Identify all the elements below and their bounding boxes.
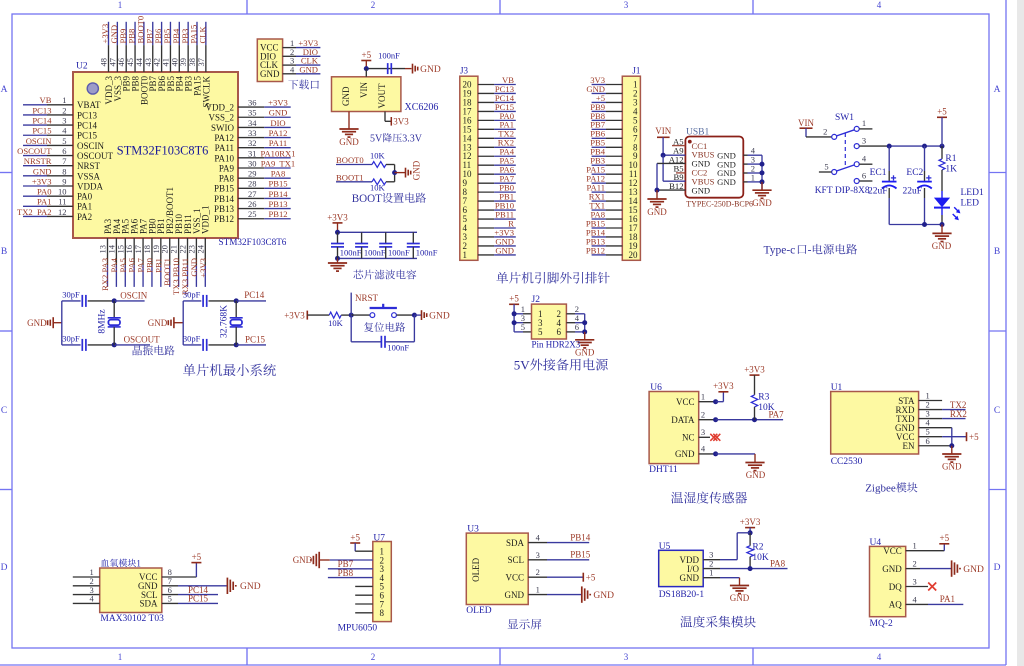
svg-text:PC15: PC15 (245, 335, 266, 345)
svg-text:33: 33 (248, 128, 257, 138)
svg-text:3: 3 (913, 577, 917, 587)
svg-text:VCC: VCC (505, 573, 524, 583)
svg-text:5: 5 (521, 322, 525, 332)
svg-text:GND: GND (420, 65, 441, 75)
svg-text:100nF: 100nF (416, 247, 438, 257)
svg-text:10K: 10K (370, 150, 386, 160)
J2 left rail (513, 304, 515, 332)
svg-text:SWIO: SWIO (211, 123, 234, 133)
U2 left pin 9 (VDDA) wire + net +3V3 (23, 185, 47, 187)
svg-text:AQ: AQ (889, 600, 902, 610)
capacitor EC1 22uF (888, 146, 890, 171)
svg-text:+3V3: +3V3 (32, 176, 52, 186)
svg-text:8: 8 (380, 608, 385, 618)
svg-text:5V: 5V (370, 134, 383, 145)
gnd (DS18B20) (739, 578, 741, 586)
U2 right pin 28 (PB15) wire + net PB15 (238, 187, 264, 189)
svg-text:1: 1 (118, 652, 123, 662)
svg-text:OSCOUT: OSCOUT (17, 146, 52, 156)
svg-text:PA9 TX1: PA9 TX1 (261, 158, 295, 168)
svg-text:EN: EN (903, 441, 915, 451)
svg-text:VDD_1: VDD_1 (201, 206, 211, 235)
svg-text:PA9: PA9 (219, 163, 235, 173)
svg-text:BOOT1: BOOT1 (336, 173, 364, 183)
switch pin6 wire (859, 180, 872, 182)
svg-text:1: 1 (913, 541, 917, 551)
svg-text:PA2: PA2 (77, 212, 92, 222)
U1 pin3 TXD wire to RX2 (919, 418, 943, 420)
svg-text:GND: GND (33, 166, 52, 176)
svg-text:PA12: PA12 (214, 133, 234, 143)
svg-text:4: 4 (877, 652, 882, 662)
svg-text:VIN: VIN (359, 82, 369, 98)
svg-text:32.768K: 32.768K (220, 305, 230, 338)
J2 left pin 1 wire (514, 313, 523, 315)
svg-text:U2: U2 (76, 62, 88, 72)
U2 left pin 8 (VSSA) wire + net GND (23, 175, 47, 177)
U2 right pin 32 (PA11) wire + net PA11 (238, 147, 264, 149)
svg-text:+5: +5 (937, 107, 947, 117)
svg-text:BOOT: BOOT (352, 193, 382, 205)
svg-text:3: 3 (624, 0, 629, 10)
switch SW1 contacts (832, 134, 837, 139)
svg-text:PC13: PC13 (77, 110, 98, 120)
svg-text:PB12: PB12 (268, 209, 287, 219)
svg-text:GND: GND (675, 449, 695, 459)
svg-text:XC6206: XC6206 (405, 102, 439, 113)
svg-text:A: A (994, 85, 1001, 95)
svg-text:DQ: DQ (889, 582, 902, 592)
svg-text:PA0: PA0 (77, 192, 93, 202)
svg-text:30pF: 30pF (62, 289, 80, 299)
caption reset circuit (364, 322, 373, 332)
switch pin1 wire (859, 128, 872, 130)
U2 top pin 41 (PB5) wire + net PB5 (169, 22, 171, 45)
U2 right pin 36 (VDD_2) wire + net +3V3 (238, 106, 264, 108)
svg-text:GND: GND (341, 86, 351, 106)
U9 left pin 1 wire (73, 576, 100, 578)
crystal2 left rail (182, 301, 184, 345)
svg-text:LED: LED (961, 199, 980, 209)
U7 pin5 stub (355, 585, 373, 587)
U5 pin1 GND wire (703, 577, 720, 579)
svg-text:PA8: PA8 (770, 558, 786, 568)
capacitor 100nF (regulator input) (387, 63, 389, 74)
svg-text:3V3: 3V3 (393, 116, 409, 126)
svg-text:PA11: PA11 (215, 143, 234, 153)
U2 bottom pin 21 (PB10) wire + net TX3 PB10 (178, 238, 180, 265)
svg-text:1: 1 (118, 0, 123, 10)
U2 bottom pin 17 (PA7) wire + net PA7 (142, 238, 144, 265)
wire VIN from +5 (365, 69, 367, 77)
U2 top pin 42 (PB6) wire + net PB6 (161, 22, 163, 45)
svg-text:PC15: PC15 (188, 594, 209, 604)
svg-text:35: 35 (248, 108, 257, 118)
svg-text:GND: GND (752, 198, 772, 208)
svg-text:+5: +5 (509, 294, 519, 304)
svg-text:NRST: NRST (77, 161, 101, 171)
U7 pin7 stub (355, 603, 373, 605)
svg-text:VB: VB (40, 95, 52, 105)
svg-text:OLED: OLED (466, 606, 491, 616)
svg-text:PA10RX1: PA10RX1 (260, 148, 295, 158)
resistor 10K (BOOT0) (372, 162, 386, 168)
caption download port (288, 80, 298, 90)
svg-text:2: 2 (536, 567, 540, 577)
svg-text:SDA: SDA (139, 599, 158, 609)
svg-text:6: 6 (862, 170, 866, 180)
wire joining boot resistors (394, 165, 396, 182)
U9 pin8 VCC wire to +5 (162, 576, 197, 578)
svg-text:VCC: VCC (676, 397, 695, 407)
cap 30pF bottom (crystal1) (62, 344, 81, 346)
svg-text:DHT11: DHT11 (649, 465, 678, 475)
svg-text:EC2: EC2 (906, 168, 923, 178)
svg-text:1: 1 (709, 568, 713, 578)
node NRST (349, 313, 354, 318)
U3 pin4 SDA wire to PB14 (528, 542, 547, 544)
U2 right pin 34 (SWIO) wire + net DIO (238, 126, 264, 128)
power +3V3 (reset) (306, 311, 308, 320)
svg-text:GND: GND (495, 245, 514, 255)
U2 right pin 25 (PB12) wire + net PB12 (238, 218, 264, 220)
svg-text:PA1: PA1 (940, 594, 955, 604)
svg-text:GND: GND (730, 593, 750, 603)
U2 top pin 48 (VDD_3) wire + net +3V3 (108, 22, 110, 45)
svg-text:12: 12 (58, 207, 67, 217)
svg-text:Pin HDR2X3: Pin HDR2X3 (532, 340, 581, 350)
svg-text:MPU6050: MPU6050 (338, 624, 378, 634)
U2 bottom pin 23 (VSS_1) wire + net GND (195, 238, 197, 265)
svg-text:PB14: PB14 (214, 194, 235, 204)
svg-text:2: 2 (913, 559, 917, 569)
USB1 GND A12 wire (657, 162, 685, 164)
svg-text:GND: GND (269, 108, 288, 118)
svg-text:A: A (1, 85, 8, 95)
svg-text:DATA: DATA (671, 415, 695, 425)
svg-text:STM32F103C8T6: STM32F103C8T6 (117, 144, 209, 158)
svg-text:GND: GND (647, 207, 667, 217)
svg-text:VBAT: VBAT (77, 100, 101, 110)
U9 left pin 2 wire (73, 585, 100, 587)
U2 top pin 37 (SWCLK) wire + net CLK (205, 22, 207, 45)
svg-text:VIN: VIN (798, 118, 814, 128)
U2 left pin 12 (PA2) wire + net TX2 PA2 (23, 215, 47, 217)
svg-text:3: 3 (624, 652, 629, 662)
svg-text:PC15: PC15 (77, 131, 98, 141)
svg-text:3: 3 (862, 135, 866, 145)
U2 left pin 1 (VBAT) wire + net VB (23, 104, 47, 106)
U4 pin4 AQ wire to PA1 (906, 603, 928, 605)
U3 pin3 SCL wire to PB15 (528, 559, 547, 561)
svg-text:PA8: PA8 (219, 174, 235, 184)
svg-text:+3V3: +3V3 (327, 212, 348, 222)
switch SW1 dashed link (844, 133, 846, 169)
caption crystal circuit (133, 346, 142, 356)
svg-text:STM32F103C8T6: STM32F103C8T6 (219, 237, 287, 247)
svg-text:4: 4 (536, 533, 541, 543)
svg-text:PB15: PB15 (570, 550, 591, 560)
svg-text:PA8: PA8 (271, 169, 286, 179)
capacitor 100nF #2 (filter) (361, 232, 363, 243)
gnd (J2) (584, 332, 586, 340)
svg-text:1: 1 (463, 250, 468, 260)
svg-text:PA1: PA1 (77, 202, 92, 212)
svg-text:DS18B20-1: DS18B20-1 (659, 590, 705, 600)
svg-text:+5: +5 (940, 533, 950, 543)
U9 pin6 SCL wire to PC14 (162, 594, 178, 596)
svg-text:VDDA: VDDA (77, 181, 103, 191)
svg-text:VOUT: VOUT (377, 83, 387, 108)
gnd (MAX30102) (226, 578, 228, 594)
U5 pin2 I/O wire to PA8 (703, 568, 720, 570)
U2 left pin 11 (PA1) wire + net PA1 (23, 205, 47, 207)
svg-text:GND: GND (963, 565, 984, 575)
svg-text:GND: GND (339, 137, 359, 147)
U2 left pin 6 (OSCOUT) wire + net OSCOUT (23, 155, 47, 157)
gnd (MQ-2) (951, 560, 953, 576)
J2 right rail (584, 314, 586, 332)
svg-text:1: 1 (751, 172, 755, 182)
svg-text:PB15: PB15 (214, 184, 235, 194)
U2 right pin 33 (PA12) wire + net PA12 (238, 137, 264, 139)
svg-text:27: 27 (248, 189, 257, 199)
caption temperature module (680, 616, 692, 628)
caption chip filter caps (353, 270, 363, 279)
U2 right pin 26 (PB13) wire + net PB13 (238, 208, 264, 210)
filter caps top rail (338, 231, 418, 233)
svg-text:PC14: PC14 (244, 290, 265, 300)
svg-text:100nF: 100nF (340, 247, 362, 257)
svg-text:26: 26 (248, 199, 257, 209)
svg-text:PC14: PC14 (77, 121, 98, 131)
svg-text:1: 1 (701, 392, 705, 402)
VBUS vertical link A9-B9 (662, 155, 664, 181)
svg-text:+3V3: +3V3 (268, 98, 288, 108)
node OSCIN (112, 298, 117, 303)
svg-text:5: 5 (824, 161, 828, 171)
svg-text:VIN: VIN (655, 126, 671, 136)
switch pin5 wire (819, 171, 832, 173)
cap 30pF bottom (crystal2) (183, 344, 201, 346)
svg-text:3: 3 (701, 427, 705, 437)
GND vertical link A12-B12 (656, 163, 658, 190)
U6 pin1 VCC wire to +3V3 (699, 401, 716, 403)
svg-text:J2: J2 (532, 295, 541, 305)
svg-text:100nF: 100nF (364, 247, 386, 257)
svg-text:DIO: DIO (270, 118, 285, 128)
svg-text:PB14: PB14 (570, 532, 591, 542)
ground (filter caps) (337, 258, 339, 263)
svg-text:D: D (1, 563, 8, 573)
caption MCU minimum system (183, 364, 195, 376)
U8 XC6206 body (332, 77, 401, 112)
svg-text:2: 2 (823, 126, 827, 136)
svg-text:KFT DIP-8X8: KFT DIP-8X8 (815, 186, 870, 196)
wire +5 rail to cap and gnd (366, 68, 405, 70)
svg-text:25: 25 (248, 209, 257, 219)
U7 pin6 stub (355, 594, 373, 596)
svg-text:100nF: 100nF (378, 51, 400, 61)
U7 pin1 wire from +5 (355, 550, 373, 552)
U2 left pin 2 (PC13) wire + net PC13 (23, 114, 47, 116)
USB1 GND B12 wire (657, 189, 685, 191)
svg-text:5: 5 (538, 327, 543, 337)
switch SW1 arm upper (837, 130, 855, 136)
U7 pin8 stub (355, 612, 373, 614)
svg-text:2: 2 (371, 652, 376, 662)
ground (boot) (395, 172, 406, 174)
svg-text:6: 6 (62, 146, 66, 156)
svg-text:R2: R2 (752, 543, 763, 553)
U2 bottom pin 20 (PB2/BOOT1) wire + net BOOT1 (169, 238, 171, 265)
U9 left pin 4 wire (73, 602, 100, 604)
svg-text:EC1: EC1 (870, 168, 887, 178)
svg-text:GND: GND (717, 177, 736, 187)
svg-text:28: 28 (248, 179, 257, 189)
gnd (USB right) (761, 182, 763, 190)
svg-text:30pF: 30pF (183, 334, 201, 344)
svg-text:9: 9 (62, 176, 66, 186)
gnd (OLED) (581, 586, 583, 602)
svg-text:VSSA: VSSA (77, 171, 101, 181)
svg-text:GND: GND (692, 185, 711, 195)
svg-text:PB12: PB12 (214, 214, 234, 224)
ground symbol right of cap (412, 64, 414, 74)
push button reset (351, 314, 370, 316)
svg-text:24: 24 (195, 244, 205, 253)
J2 left pin 3 wire (514, 322, 523, 324)
USB1 CC2 stub (676, 172, 685, 174)
resistor 10K (reset) (329, 312, 341, 318)
svg-text:10K: 10K (752, 553, 769, 563)
svg-text:8: 8 (62, 166, 66, 176)
svg-text:Type-c: Type-c (764, 245, 796, 257)
svg-text:100nF: 100nF (387, 343, 409, 353)
svg-text:36: 36 (248, 98, 257, 108)
svg-text:1: 1 (536, 585, 540, 595)
svg-text:PB13: PB13 (268, 199, 287, 209)
bottom rail (Type-C power) (889, 224, 942, 226)
filter caps bottom rail (338, 257, 418, 259)
U2 bottom pin 13 (PA3) wire + net RX2 PA3 (107, 238, 109, 265)
resistor R2 10K (749, 533, 751, 546)
P1 download header body (257, 39, 282, 82)
U2 bottom pin 22 (PB11) wire + net RX3 PB11 (187, 238, 189, 265)
svg-text:PB15: PB15 (268, 179, 287, 189)
svg-text:100nF: 100nF (388, 247, 410, 257)
caption display (508, 619, 519, 629)
svg-text:J1: J1 (632, 66, 640, 76)
svg-text:SW1: SW1 (835, 113, 854, 123)
USB right gnd rail (761, 155, 763, 189)
svg-text:GND: GND (942, 462, 962, 472)
U5 pin3 VDD wire (703, 559, 720, 561)
svg-text:3: 3 (536, 550, 540, 560)
U9 pin5 SDA wire to PC15 (162, 602, 178, 604)
svg-text:22uF: 22uF (902, 187, 922, 197)
svg-text:2: 2 (371, 0, 376, 10)
svg-text:C: C (1, 406, 7, 416)
svg-text:GND: GND (746, 470, 766, 480)
U2 left pin 5 (OSCIN) wire + net OSCIN (23, 144, 47, 146)
svg-text:PC13: PC13 (32, 105, 51, 115)
U2 left pin 7 (NRST) wire + net NRSTR (23, 165, 47, 167)
U2 STM32F103C8T6 body (73, 72, 238, 238)
svg-text:+3V3: +3V3 (740, 517, 761, 527)
svg-text:CC2530: CC2530 (831, 457, 863, 467)
svg-text:34: 34 (248, 118, 257, 128)
svg-text:+3V3: +3V3 (198, 258, 208, 278)
svg-text:32: 32 (248, 138, 257, 148)
svg-text:GND: GND (412, 160, 422, 180)
svg-text:1: 1 (136, 558, 141, 568)
J2 body Pin HDR2X3 (532, 304, 567, 339)
power rail from switch (889, 145, 942, 147)
svg-text:NC: NC (682, 433, 695, 443)
svg-text:10K: 10K (758, 403, 775, 413)
svg-text:PB14: PB14 (268, 189, 288, 199)
U1 pin6 EN wire (919, 445, 952, 447)
svg-text:PC15: PC15 (32, 126, 51, 136)
U9 left pin 3 wire (73, 594, 100, 596)
U9 MAX30102 body (100, 568, 162, 613)
U2 right pin 35 (VSS_2) wire + net GND (238, 116, 264, 118)
svg-text:+3V3: +3V3 (284, 310, 305, 320)
svg-text:RX2: RX2 (950, 409, 967, 419)
svg-text:8MHz: 8MHz (98, 309, 108, 333)
U2 top pin 45 (PB8) wire + net PB8 (134, 22, 136, 45)
svg-text:OSCOUT: OSCOUT (77, 151, 114, 161)
U2 top pin 44 (BOOT0) wire + net BOOT0 (143, 22, 145, 45)
svg-text:6: 6 (575, 322, 579, 332)
svg-text:R3: R3 (758, 392, 769, 402)
U2 right pin 29 (PA8) wire + net PA8 (238, 177, 264, 179)
U1 pin1 STA wire (919, 400, 943, 402)
svg-text:PA10: PA10 (214, 153, 234, 163)
svg-text:5: 5 (168, 594, 172, 604)
svg-text:VSS_2: VSS_2 (208, 113, 234, 123)
U2 left pin 4 (PC15) wire + net PC15 (23, 134, 47, 136)
J2 left pin 5 wire (514, 331, 523, 333)
power port 3V3 (390, 117, 392, 126)
svg-text:GND: GND (932, 241, 952, 251)
svg-text:GND: GND (429, 311, 450, 321)
caption temp-humidity sensor (671, 492, 683, 504)
J1 header body (622, 76, 640, 260)
U1 pin2 RXD wire to TX2 (919, 409, 943, 411)
LED1 (941, 170, 943, 191)
svg-text:GND: GND (505, 590, 525, 600)
svg-text:GND: GND (260, 69, 280, 79)
U2 top pin 43 (PB7) wire + net PB7 (152, 22, 154, 45)
U2 left pin 3 (PC14) wire + net PC14 (23, 124, 47, 126)
svg-text:PB13: PB13 (214, 204, 235, 214)
svg-text:+5: +5 (362, 50, 372, 60)
gnd (Type-C power) (941, 225, 943, 234)
svg-text:SCL: SCL (507, 555, 524, 565)
svg-text:PA12: PA12 (269, 128, 288, 138)
svg-text:PC14: PC14 (32, 116, 52, 126)
J3 header body (460, 76, 478, 260)
USB1 VBUS A9 wire to VIN (663, 154, 685, 156)
svg-text:PB8: PB8 (338, 568, 354, 578)
U2 top pin 39 (PB3) wire + net PB3 (187, 22, 189, 45)
capacitor 100nF #3 (filter) (385, 232, 387, 243)
U2 right pin 27 (PB14) wire + net PB14 (238, 197, 264, 199)
svg-text:5: 5 (62, 136, 66, 146)
svg-text:30pF: 30pF (183, 289, 201, 299)
